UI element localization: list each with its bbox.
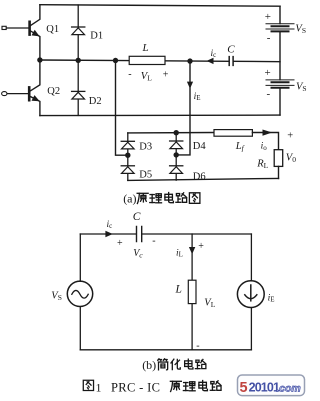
wire top (b) left of C	[80, 233, 136, 235]
svg-text:+: +	[163, 69, 169, 80]
arrow ic (b)	[105, 231, 112, 237]
wire top (b) right of C	[142, 233, 252, 235]
inductor Lf box	[214, 130, 252, 137]
svg-text:D6: D6	[193, 171, 206, 182]
wire bridge left tap	[116, 61, 128, 156]
svg-text:VS: VS	[295, 23, 306, 35]
node dot D4/D6 junction	[174, 152, 179, 157]
svg-text:ic: ic	[107, 220, 113, 230]
diode D6	[175, 155, 177, 180]
node dot mid rail bridge tap	[113, 58, 118, 63]
arrow iE	[187, 82, 193, 89]
svg-text:RL: RL	[256, 159, 268, 171]
inductor L box	[129, 56, 165, 64]
svg-text:+: +	[265, 67, 271, 79]
capacitor C (b)	[137, 227, 142, 242]
wire iE branch	[176, 61, 190, 155]
transistor Q2	[2, 60, 40, 115]
wire left (b)	[79, 234, 81, 350]
svg-text:PRC - IC: PRC - IC	[111, 380, 160, 394]
svg-text:-: -	[152, 236, 155, 247]
svg-text:-: -	[196, 340, 199, 351]
wire Lf to RL	[252, 133, 278, 150]
wire right battery column	[279, 6, 281, 115]
svg-text:VL: VL	[204, 298, 215, 310]
svg-text:.com: .com	[276, 383, 301, 395]
svg-text:1: 1	[96, 380, 102, 394]
svg-text:VL: VL	[141, 71, 152, 83]
svg-text:5: 5	[240, 380, 248, 396]
arrow ic (a)	[207, 58, 214, 64]
node dot D1/D2 on mid rail	[76, 58, 81, 63]
svg-text:(b): (b)	[142, 358, 156, 372]
diode D2	[77, 60, 79, 115]
node dot D4 top on bridge rail	[174, 130, 179, 135]
arrow io	[263, 130, 273, 136]
wire RL to bottom	[278, 166, 280, 178]
wire bridge top	[128, 132, 214, 134]
svg-text:D1: D1	[90, 30, 103, 41]
wire right (b)	[250, 234, 252, 350]
svg-text:ic: ic	[211, 49, 217, 59]
diode D3	[127, 133, 129, 155]
svg-text:+: +	[198, 241, 204, 252]
svg-text:io: io	[261, 142, 268, 152]
svg-text:D3: D3	[139, 142, 152, 153]
svg-text:Lf: Lf	[235, 141, 245, 153]
node dot mid rail iE branch	[187, 58, 192, 63]
svg-text:D4: D4	[193, 141, 207, 152]
svg-text:VS: VS	[51, 291, 62, 303]
diode D1	[77, 5, 79, 60]
capacitor C (a)	[229, 57, 233, 66]
transistor Q1	[2, 5, 40, 60]
svg-text:+: +	[117, 238, 123, 249]
figure caption 图1 PRC-IC	[83, 380, 93, 390]
svg-text:C: C	[227, 44, 235, 56]
svg-text:+: +	[265, 11, 271, 23]
watermark logo 520101.com	[238, 375, 305, 396]
svg-text:iE: iE	[268, 293, 275, 303]
battery VS bottom	[266, 80, 294, 88]
arrow iL	[189, 247, 195, 254]
svg-text:VS: VS	[296, 82, 307, 94]
current source iE circle	[237, 281, 264, 308]
diode D4	[175, 133, 177, 155]
svg-text:V0: V0	[286, 153, 296, 165]
svg-text:L: L	[175, 283, 182, 295]
svg-text:iL: iL	[176, 248, 183, 258]
source VS circle	[67, 281, 92, 306]
svg-text:iE: iE	[194, 92, 201, 102]
svg-text:L: L	[142, 42, 149, 54]
svg-text:Q2: Q2	[47, 86, 60, 97]
wire top rail	[40, 5, 280, 7]
svg-text:(a): (a)	[123, 191, 136, 205]
resistor RL box	[274, 150, 283, 167]
node dot at Q1/Q2 emitter-collector junction	[37, 57, 42, 62]
wire bottom rail	[40, 114, 280, 117]
diode D5	[127, 155, 129, 180]
node dot D3/D5 junction	[125, 153, 130, 158]
inductor L box (b)	[188, 280, 196, 303]
battery VS top	[266, 24, 294, 32]
svg-text:Q1: Q1	[46, 24, 59, 35]
wire bottom (b)	[80, 349, 251, 351]
svg-text:C: C	[133, 211, 141, 223]
svg-text:Vc: Vc	[133, 248, 143, 259]
svg-text:-: -	[267, 88, 271, 100]
svg-text:D5: D5	[139, 170, 152, 181]
svg-text:-: -	[128, 69, 131, 80]
svg-text:-: -	[267, 32, 271, 44]
arrow in iE source	[250, 285, 252, 301]
sine wave in VS	[72, 290, 88, 298]
wire iL branch	[191, 234, 193, 350]
wire bridge bottom	[128, 178, 279, 180]
svg-text:+: +	[287, 131, 293, 142]
wire mid rail left	[40, 60, 229, 61]
svg-text:D2: D2	[89, 96, 102, 107]
wire mid rail right of capacitor C	[233, 60, 280, 62]
